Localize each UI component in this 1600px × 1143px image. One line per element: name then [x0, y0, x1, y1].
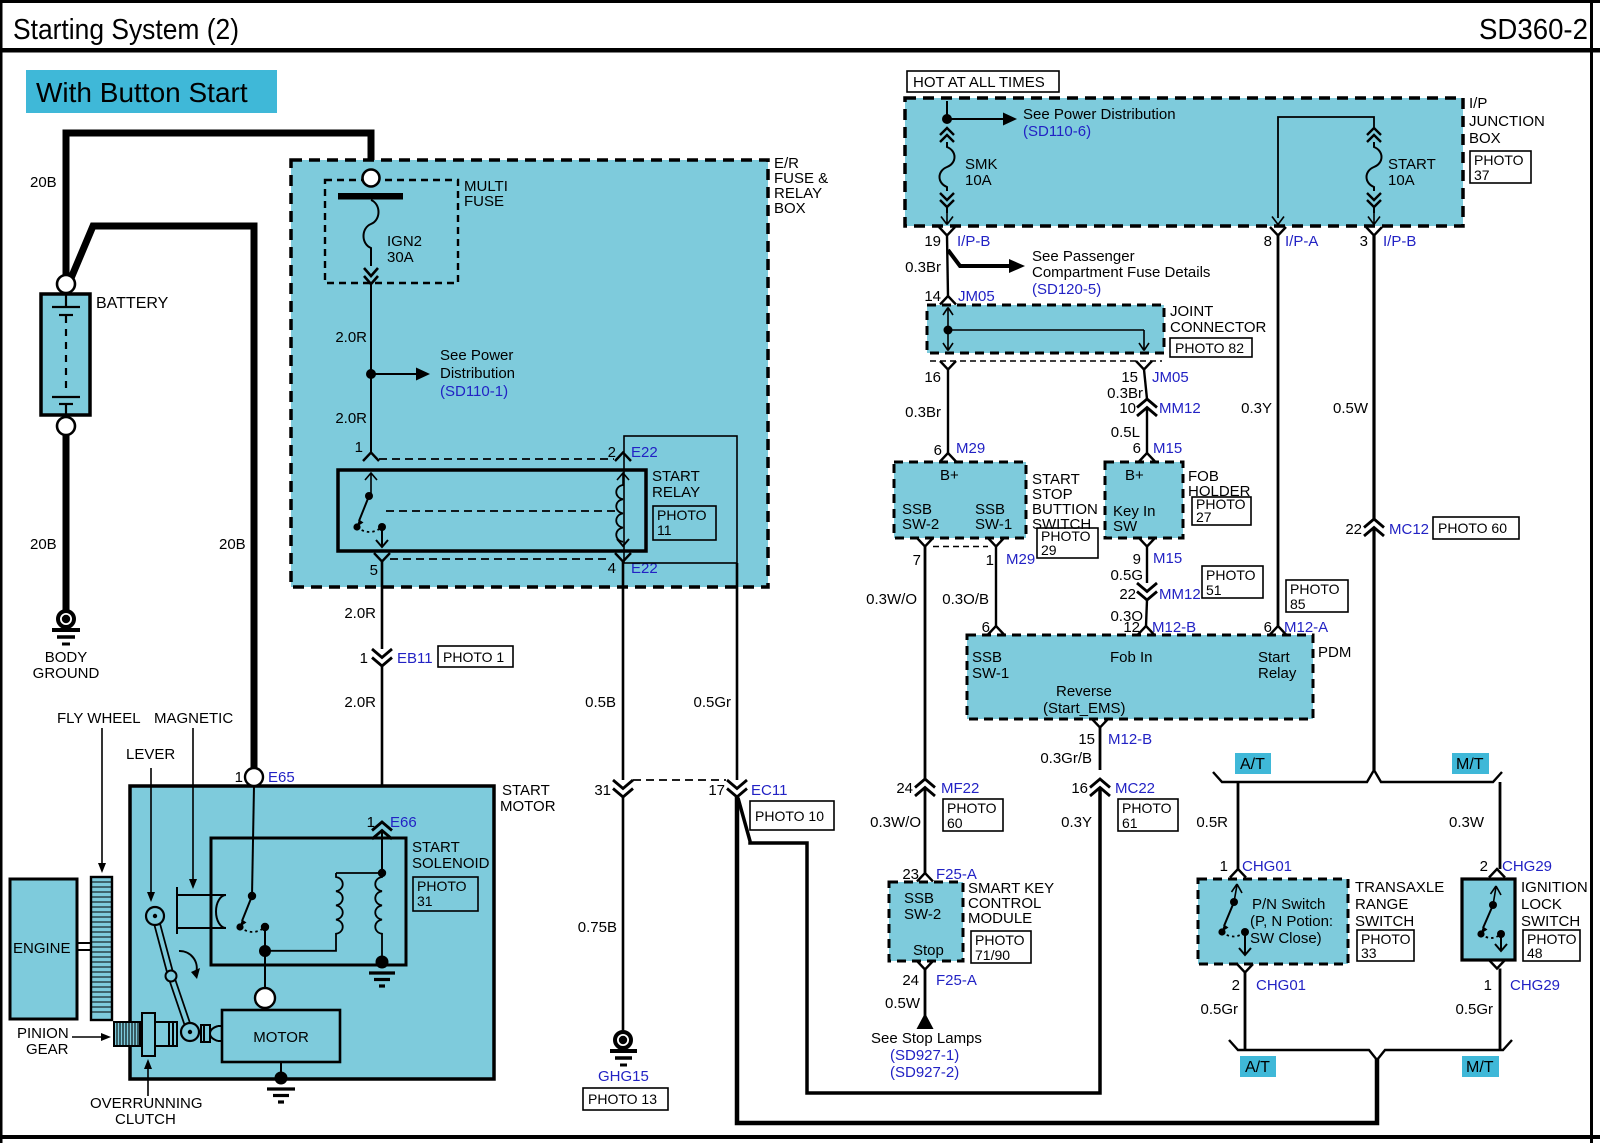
- arrow magnetic: [189, 728, 197, 889]
- svg-text:0.5Gr: 0.5Gr: [1200, 1001, 1238, 1018]
- svg-text:2.0R: 2.0R: [344, 605, 376, 622]
- svg-text:FLY WHEEL: FLY WHEEL: [57, 710, 141, 727]
- relay internal dashed link line: [386, 510, 616, 512]
- svg-text:I/P-B: I/P-B: [1383, 233, 1416, 250]
- svg-text:SW Close): SW Close): [1250, 930, 1322, 947]
- svg-text:SOLENOID: SOLENOID: [412, 855, 490, 872]
- svg-text:I/P-A: I/P-A: [1285, 233, 1318, 250]
- svg-text:0.5R: 0.5R: [1196, 814, 1228, 831]
- wire pin9 to MM12 pair: [1146, 547, 1148, 584]
- label A/T (upper): [1235, 753, 1271, 774]
- svg-text:BATTERY: BATTERY: [96, 295, 169, 312]
- SKCM pin 23 chevron: [917, 873, 933, 882]
- ignition lock switch box: [1462, 879, 1515, 960]
- PHOTO 85 box: [1286, 580, 1348, 612]
- fuse output chevron (double V): [364, 268, 378, 284]
- connector 22 MC12 (double chevron up): [1364, 519, 1384, 536]
- E/R fuse and relay box: [291, 160, 768, 587]
- svg-text:22: 22: [1119, 586, 1136, 603]
- connector E65 circle: [245, 768, 263, 786]
- wire A/T to CHG01 pin 1: [1237, 782, 1240, 869]
- svg-text:CHG29: CHG29: [1510, 977, 1560, 994]
- wire EC11 down to bottom routing (thick): [737, 797, 1377, 1123]
- svg-text:(SD110-6): (SD110-6): [1023, 123, 1091, 140]
- relay switch right contact dot: [378, 523, 386, 531]
- PHOTO 82 box: [1170, 338, 1252, 357]
- svg-text:M12-B: M12-B: [1152, 619, 1196, 636]
- P/N switch output arrow: [1239, 932, 1251, 955]
- With Button Start header box: [26, 70, 277, 113]
- svg-text:85: 85: [1290, 596, 1306, 612]
- wire E65 into solenoid switch: [252, 786, 254, 896]
- page border right: [1590, 0, 1593, 1143]
- svg-text:TRANSAXLE: TRANSAXLE: [1355, 879, 1444, 896]
- svg-text:Fob In: Fob In: [1110, 649, 1153, 666]
- P/N switch left contact dot: [1218, 928, 1225, 935]
- relay label thin outline box: [624, 436, 737, 563]
- label M/T (lower): [1462, 1056, 1499, 1077]
- engine box: [10, 879, 77, 1019]
- svg-text:10A: 10A: [1388, 172, 1415, 189]
- svg-text:E22: E22: [631, 444, 658, 461]
- PHOTO 10 box: [750, 801, 834, 830]
- svg-text:PHOTO 10: PHOTO 10: [755, 808, 824, 824]
- svg-text:19: 19: [924, 233, 941, 250]
- svg-text:PINION: PINION: [17, 1025, 69, 1042]
- wire SSB pin1 to PDM pin 6: [995, 547, 997, 627]
- svg-text:A/T: A/T: [1245, 1059, 1270, 1076]
- svg-text:E65: E65: [268, 769, 295, 786]
- wire transaxle pin2 to lower bracket: [1244, 973, 1247, 1051]
- ignition switch output arrow: [1495, 934, 1507, 951]
- svg-text:Reverse: Reverse: [1056, 683, 1112, 700]
- svg-text:PHOTO: PHOTO: [1474, 152, 1524, 168]
- solenoid switch dotted travel arc: [240, 927, 265, 932]
- svg-text:14: 14: [924, 288, 941, 305]
- connector 10 MM12 (double chevron up): [1137, 399, 1157, 416]
- solenoid coil top link: [336, 872, 382, 874]
- svg-text:17: 17: [708, 782, 725, 799]
- svg-text:31: 31: [417, 893, 433, 909]
- fob holder box: [1105, 462, 1183, 538]
- solenoid ground symbol: [369, 973, 395, 986]
- svg-text:0.5L: 0.5L: [1111, 424, 1140, 441]
- svg-text:See Stop Lamps: See Stop Lamps: [871, 1030, 982, 1047]
- svg-text:MC22: MC22: [1115, 780, 1155, 797]
- svg-text:See Power Distribution: See Power Distribution: [1023, 106, 1176, 123]
- svg-text:61: 61: [1122, 815, 1138, 831]
- smart key control module box: [889, 882, 963, 961]
- P/N switch dotted travel arc: [1222, 932, 1245, 937]
- solenoid output junction dot: [259, 945, 271, 957]
- ignition switch top contact dot: [1489, 901, 1497, 909]
- svg-text:CHG01: CHG01: [1242, 858, 1292, 875]
- svg-text:IGN2: IGN2: [387, 233, 422, 250]
- relay pin 4 chevron: [615, 553, 631, 562]
- svg-text:0.75B: 0.75B: [578, 919, 617, 936]
- svg-text:0.5W: 0.5W: [1333, 400, 1369, 417]
- svg-text:1: 1: [1220, 858, 1228, 875]
- junction dot node: [366, 369, 376, 379]
- PHOTO 27 box: [1192, 497, 1251, 525]
- svg-text:JM05: JM05: [958, 288, 995, 305]
- ignition switch arm: [1481, 905, 1494, 934]
- SMK feed stub and junction dot: [946, 101, 948, 119]
- svg-text:GHG15: GHG15: [598, 1068, 649, 1085]
- svg-text:0.3W/O: 0.3W/O: [866, 591, 917, 608]
- magnetic plunger yoke: [177, 887, 226, 934]
- inverted U feed to START fuse: [1278, 117, 1374, 218]
- svg-text:BOX: BOX: [1469, 130, 1501, 147]
- svg-text:E66: E66: [390, 814, 417, 831]
- svg-text:SW-1: SW-1: [972, 665, 1009, 682]
- arrow fly wheel: [98, 728, 106, 873]
- connector pin 31 (double chevron down): [613, 780, 633, 797]
- svg-text:JOINT: JOINT: [1170, 303, 1213, 320]
- svg-text:FUSE: FUSE: [464, 193, 504, 210]
- connector E66 (double chevron up): [372, 822, 392, 839]
- joint connector bus line: [948, 329, 1144, 331]
- relay switch dotted travel arc: [357, 527, 382, 532]
- HOT AT ALL TIMES box: [907, 71, 1059, 92]
- svg-text:9: 9: [1133, 551, 1141, 568]
- lever rotation arrow: [179, 951, 200, 979]
- svg-text:CHG29: CHG29: [1502, 858, 1552, 875]
- svg-text:B+: B+: [1125, 467, 1144, 484]
- stop lamps arrow triangle: [917, 1013, 934, 1029]
- transaxle pin 2 exit chevron: [1237, 964, 1253, 973]
- svg-text:2: 2: [608, 444, 616, 461]
- wire pin15 to MM12: [1144, 370, 1147, 400]
- wire M/T to CHG29 pin 2: [1499, 782, 1502, 869]
- svg-text:EB11: EB11: [397, 650, 433, 667]
- PDM pin 12 chevron: [1138, 626, 1154, 635]
- wire pin24 to stop lamps: [924, 970, 927, 1017]
- svg-text:0.5Gr: 0.5Gr: [693, 694, 731, 711]
- arrow lever: [147, 768, 155, 902]
- svg-text:4: 4: [608, 560, 616, 577]
- wire I/P-B pin 3 to MC12: [1372, 236, 1375, 520]
- lever lower arm: [171, 976, 190, 1032]
- svg-text:7: 7: [913, 552, 921, 569]
- svg-text:CHG01: CHG01: [1256, 977, 1306, 994]
- svg-text:60: 60: [947, 815, 963, 831]
- SSB pin 6 chevron: [940, 453, 956, 462]
- connector EB11 (double chevron down): [372, 649, 392, 666]
- svg-text:See Passenger: See Passenger: [1032, 248, 1135, 265]
- lever bottom circle: [181, 1023, 199, 1041]
- svg-text:3: 3: [1360, 233, 1368, 250]
- fuse SMK 10A: [940, 128, 955, 213]
- svg-text:10: 10: [1119, 400, 1136, 417]
- svg-text:2.0R: 2.0R: [335, 410, 367, 427]
- flywheel (hatched bar): [91, 877, 112, 1020]
- svg-text:(SD927-1): (SD927-1): [890, 1047, 959, 1064]
- page border top: [0, 0, 1600, 3]
- svg-text:PHOTO 82: PHOTO 82: [1175, 340, 1244, 356]
- FOB pin 6 chevron: [1139, 453, 1155, 462]
- svg-text:2: 2: [1480, 858, 1488, 875]
- dashed tie line pins 7-1: [933, 546, 988, 548]
- FOB pin 9 exit chevron: [1139, 538, 1155, 547]
- svg-text:15: 15: [1078, 731, 1095, 748]
- svg-text:M/T: M/T: [1466, 1059, 1494, 1076]
- wire 20B battery positive to E/R fuse box (thick): [66, 133, 371, 281]
- svg-text:ENGINE: ENGINE: [13, 940, 71, 957]
- wire 20B battery to start motor E65 (thick): [69, 226, 254, 768]
- svg-text:0.3Y: 0.3Y: [1241, 400, 1272, 417]
- lever mid pivot circle: [166, 971, 177, 982]
- svg-text:6: 6: [982, 619, 990, 636]
- svg-text:2.0R: 2.0R: [335, 329, 367, 346]
- I/P junction box: [905, 98, 1463, 226]
- svg-text:15: 15: [1121, 369, 1138, 386]
- svg-text:LEVER: LEVER: [126, 746, 175, 763]
- relay pin 2 chevron: [615, 453, 631, 462]
- svg-text:51: 51: [1206, 582, 1222, 598]
- PHOTO 1 box: [438, 646, 513, 667]
- svg-text:PHOTO 13: PHOTO 13: [588, 1091, 657, 1107]
- svg-text:PHOTO: PHOTO: [1206, 567, 1256, 583]
- wire junction to relay pin 1: [370, 374, 372, 452]
- svg-text:LOCK: LOCK: [1521, 896, 1562, 913]
- svg-text:SSB: SSB: [904, 890, 934, 907]
- svg-text:27: 27: [1196, 509, 1212, 525]
- svg-text:PHOTO: PHOTO: [947, 800, 997, 816]
- svg-text:Distribution: Distribution: [440, 365, 515, 382]
- svg-text:JM05: JM05: [1152, 369, 1189, 386]
- svg-text:M29: M29: [956, 440, 985, 457]
- multi fuse dashed box: [325, 180, 458, 283]
- arrow to see power distribution: [371, 368, 430, 381]
- motor ground dot: [275, 1072, 288, 1085]
- battery internal cells: [52, 294, 80, 415]
- svg-text:(P, N Potion:: (P, N Potion:: [1250, 913, 1333, 930]
- connector 24 MF22 (double chevron up): [915, 779, 935, 796]
- lever upper arm: [155, 916, 171, 976]
- svg-text:24: 24: [896, 780, 913, 797]
- svg-text:START: START: [412, 839, 460, 856]
- joint connector box: [927, 305, 1164, 353]
- svg-text:MODULE: MODULE: [968, 910, 1032, 927]
- fuse IGN2 30A squiggle: [364, 200, 379, 266]
- transaxle range switch box: [1198, 879, 1348, 964]
- dashed connector separation line: [930, 360, 1162, 362]
- svg-text:START: START: [502, 782, 550, 799]
- svg-text:6: 6: [1264, 619, 1272, 636]
- ignition switch left contact dot: [1477, 930, 1484, 937]
- svg-text:BODY: BODY: [45, 649, 88, 666]
- wire MM12 to M15: [1146, 408, 1148, 455]
- clutch output bracket: [201, 1025, 222, 1042]
- pin 3 exit arrow: [1368, 213, 1380, 225]
- multi fuse terminal circle: [363, 170, 380, 187]
- svg-text:10A: 10A: [965, 172, 992, 189]
- upper A/T M/T bracket: [1213, 770, 1502, 782]
- solenoid switch arm: [240, 896, 253, 927]
- svg-text:OVERRUNNING: OVERRUNNING: [90, 1095, 203, 1112]
- arrow overrunning clutch: [144, 1059, 152, 1096]
- svg-text:33: 33: [1361, 945, 1377, 961]
- wire EC11 branch to MC22 routing: [738, 788, 1100, 1093]
- dashed tie line pins 5-4: [390, 558, 611, 560]
- lower A/T M/T bracket: [1229, 1040, 1512, 1060]
- arrow to see power distribution (SD110-6): [947, 113, 1017, 126]
- svg-text:20B: 20B: [30, 174, 57, 191]
- svg-text:JUNCTION: JUNCTION: [1469, 113, 1545, 130]
- PHOTO 11 box: [653, 506, 716, 540]
- svg-text:M12-A: M12-A: [1284, 619, 1328, 636]
- svg-text:IGNITION: IGNITION: [1521, 879, 1588, 896]
- PHOTO 33 box: [1357, 930, 1414, 961]
- wire I/P-A pin 8 to PDM pin 6 M12-A: [1277, 236, 1280, 627]
- svg-text:Relay: Relay: [1258, 665, 1297, 682]
- wire 20B battery negative to body ground (thick): [63, 435, 70, 610]
- wire MF22 to SKCM pin 23: [924, 788, 927, 874]
- svg-text:MAGNETIC: MAGNETIC: [154, 710, 233, 727]
- svg-text:PHOTO: PHOTO: [657, 507, 707, 523]
- relay pin 1 chevron: [363, 453, 379, 462]
- svg-text:P/N Switch: P/N Switch: [1252, 896, 1325, 913]
- solenoid switch right contact dot: [261, 923, 269, 931]
- svg-text:CLUTCH: CLUTCH: [115, 1111, 176, 1128]
- lever pivot top circle: [146, 907, 164, 925]
- svg-text:0.5G: 0.5G: [1110, 567, 1143, 584]
- relay coil: [616, 485, 623, 542]
- solenoid hold-in coil (right): [375, 873, 382, 960]
- svg-text:I/P-B: I/P-B: [957, 233, 990, 250]
- svg-text:22: 22: [1345, 521, 1362, 538]
- PHOTO 29 box: [1037, 528, 1098, 558]
- svg-text:HOT AT ALL TIMES: HOT AT ALL TIMES: [913, 74, 1045, 91]
- PHOTO 60 box (MC12): [1433, 517, 1519, 539]
- svg-text:0.3O/B: 0.3O/B: [942, 591, 989, 608]
- svg-text:2.0R: 2.0R: [344, 694, 376, 711]
- svg-text:F25-A: F25-A: [936, 972, 977, 989]
- wire MM12 to PDM pin 12: [1146, 600, 1147, 626]
- pinion gear (striped): [114, 1022, 140, 1046]
- svg-text:0.5W: 0.5W: [885, 995, 921, 1012]
- dashed tie line 31 to 17: [633, 779, 726, 781]
- wire E66 into solenoid: [381, 831, 383, 874]
- svg-text:0.3Br: 0.3Br: [905, 259, 941, 276]
- svg-text:RELAY: RELAY: [652, 484, 700, 501]
- wire 31 to GHG15 ground: [622, 797, 625, 1030]
- svg-text:1: 1: [360, 650, 368, 667]
- thick arrow to passenger compartment fuse details: [948, 250, 1025, 273]
- svg-text:6: 6: [934, 442, 942, 459]
- solenoid switch top contact dot: [248, 892, 256, 900]
- svg-text:SD360-2: SD360-2: [1479, 14, 1588, 46]
- svg-text:0.3W/O: 0.3W/O: [870, 814, 921, 831]
- svg-text:24: 24: [902, 972, 919, 989]
- svg-text:PHOTO 60: PHOTO 60: [1438, 520, 1507, 536]
- svg-text:6: 6: [1133, 440, 1141, 457]
- wire SSB pin7 to MF22: [924, 547, 927, 780]
- motor terminal circle: [255, 988, 275, 1008]
- svg-text:31: 31: [594, 782, 611, 799]
- svg-text:1: 1: [235, 769, 243, 786]
- motor box: [222, 1010, 340, 1062]
- svg-text:1: 1: [986, 552, 994, 569]
- svg-text:PHOTO: PHOTO: [1290, 581, 1340, 597]
- solenoid coil ground dot: [376, 956, 389, 969]
- joint connector right exit arrow: [1139, 330, 1149, 351]
- dashed tie line pins 1-2: [379, 458, 614, 460]
- svg-text:PHOTO 1: PHOTO 1: [443, 649, 504, 665]
- svg-text:SW-1: SW-1: [975, 516, 1012, 533]
- svg-text:Stop: Stop: [913, 942, 944, 959]
- wire switch to motor junction: [264, 927, 266, 951]
- label M/T (upper): [1452, 753, 1489, 774]
- PHOTO 60 box (MF22): [943, 799, 1003, 831]
- wire junction to motor terminal: [264, 951, 266, 988]
- svg-text:START: START: [652, 468, 700, 485]
- wire PDM pin15 to MC22: [1099, 728, 1102, 771]
- svg-text:(Start_EMS): (Start_EMS): [1043, 700, 1126, 717]
- svg-text:See Power: See Power: [440, 347, 513, 364]
- PHOTO 71/90 box: [971, 931, 1031, 963]
- svg-text:(SD120-5): (SD120-5): [1032, 281, 1101, 298]
- PHOTO 48 box: [1523, 930, 1580, 961]
- PDM pin 6 chevron: [988, 626, 1004, 635]
- start stop button switch box: [894, 462, 1026, 538]
- svg-text:20B: 20B: [30, 536, 57, 553]
- GHG15 ground symbol: [610, 1032, 637, 1065]
- SSB pin 1 exit chevron: [988, 538, 1004, 547]
- solenoid switch left contact dot: [236, 923, 243, 930]
- svg-text:B+: B+: [940, 467, 959, 484]
- svg-text:GEAR: GEAR: [26, 1041, 69, 1058]
- pin 19 exit arrow: [941, 213, 953, 225]
- svg-text:2: 2: [1232, 977, 1240, 994]
- svg-text:0.3Br: 0.3Br: [905, 404, 941, 421]
- svg-text:11: 11: [657, 522, 672, 538]
- svg-text:1: 1: [1484, 977, 1492, 994]
- page border bottom: [0, 1135, 1600, 1139]
- PDM pin 6 M12-A chevron: [1270, 626, 1286, 635]
- svg-text:Compartment Fuse Details: Compartment Fuse Details: [1032, 264, 1210, 281]
- page border left: [0, 0, 3, 1143]
- svg-text:RANGE: RANGE: [1355, 896, 1408, 913]
- svg-text:MOTOR: MOTOR: [500, 798, 556, 815]
- title separator line: [0, 48, 1600, 53]
- pin 15 chevron: [1136, 361, 1152, 370]
- svg-text:SW-2: SW-2: [902, 516, 939, 533]
- label A/T (lower): [1240, 1056, 1276, 1077]
- svg-text:MM12: MM12: [1159, 586, 1201, 603]
- pin 14 chevron: [940, 296, 956, 305]
- wire pin16 to SSB pin 6: [947, 370, 949, 454]
- relay coil output arrow: [617, 539, 629, 546]
- wire pin 19 to JM05 pin 14: [947, 236, 948, 297]
- wire motor to ground: [280, 1062, 282, 1077]
- solenoid junction dot: [378, 869, 386, 877]
- pin 8 exit arrow: [1272, 217, 1284, 225]
- svg-text:BOX: BOX: [774, 200, 806, 217]
- relay switch output with arrow: [376, 527, 388, 547]
- svg-text:0.5Gr: 0.5Gr: [1455, 1001, 1493, 1018]
- svg-text:20B: 20B: [219, 536, 246, 553]
- wire relay pin5 to EB11: [381, 562, 384, 650]
- svg-text:GROUND: GROUND: [33, 665, 100, 682]
- svg-text:48: 48: [1527, 945, 1543, 961]
- svg-text:MOTOR: MOTOR: [253, 1029, 309, 1046]
- svg-text:MF22: MF22: [941, 780, 979, 797]
- svg-text:M15: M15: [1153, 440, 1182, 457]
- joint connector junction dot: [944, 326, 953, 335]
- connector 22 MM12 (double chevron down): [1137, 583, 1157, 600]
